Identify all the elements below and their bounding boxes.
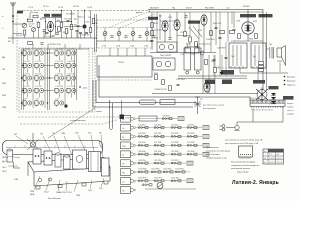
svg-text:Пб: Пб [122,190,124,192]
label box СВ-КВ [52,14,62,17]
svg-text:С33 R37 6,8: С33 R37 6,8 [154,89,167,91]
bottom leaders [8,156,104,192]
svg-text:Выход 1: Выход 1 [287,77,296,79]
pot R15 [195,42,198,47]
svg-text:С2 20: С2 20 [28,7,33,9]
svg-text:колодке: колодке [287,114,294,116]
svg-text:соединительной колодки на: соединительной колодки на [231,164,260,167]
row2 end box [178,117,184,121]
lamp stem [197,97,199,114]
dark comp bank bottom [64,104,67,107]
wire x215b [214,55,216,94]
wafer box Св [121,124,131,131]
svg-text:для ламп освещ. шкалы: для ламп освещ. шкалы [203,105,225,107]
dark box СЕТЬ2 [222,80,232,85]
contact r6.0 [138,153,148,155]
right can [102,158,110,176]
row7 end ticks [188,161,190,165]
svg-text:при напряжении сети 220в пред.: при напряжении сети 220в пред. 0,5А [225,142,259,145]
svg-text:Лп: Лп [264,151,266,153]
dark box ВЫПР [221,70,234,75]
link y35b [177,35,190,37]
psu bus 1 [178,75,247,77]
svg-text:6П14П: 6П14П [243,6,250,8]
contact r6.1 [154,153,164,155]
contact r8.2 [163,171,173,173]
coil cell L2 [22,51,32,57]
wire x216 [215,12,217,45]
switch diag 1 [189,27,199,39]
bank rail L2 [23,49,25,110]
resistor R12 [151,31,154,36]
pulley shaft [32,133,34,142]
svg-text:R1 51к: R1 51к [43,6,49,8]
wafer contact Дв [131,117,134,120]
svg-text:Расположение выводов: Расположение выводов [231,162,256,164]
link y33 [13,33,22,35]
left cyl [7,149,13,162]
choke windings [255,45,259,66]
IF can T5 [153,58,175,70]
tube V4 det [201,15,207,25]
wafer circle УКВ [133,144,135,146]
bank rail M1 [47,49,49,110]
resistor R11 [151,23,154,28]
bank feed drops [33,44,80,49]
svg-text:Звукосн.: Звукосн. [287,85,296,87]
lamp star [194,101,201,107]
V5 electrodes [245,22,252,31]
wire x80 [80,34,82,38]
padder C7 [76,30,79,31]
row5 end box [203,143,209,147]
row2 end ticks [179,117,181,121]
svg-text:перекл.: перекл. [287,103,294,105]
jack inner [158,184,162,187]
svg-text:НЧ 6Н2П: НЧ 6Н2П [205,7,215,9]
contact r2.0 [162,118,172,120]
gang common bar [97,40,152,42]
antenna node dot [12,15,14,17]
svg-text:С91 R51: С91 R51 [154,160,161,162]
coil cell L4 [22,76,32,82]
wire x30 [29,13,31,18]
wire x220m [219,45,221,76]
gnd y52 [150,52,216,54]
resistor R2 [70,25,73,30]
T5 coil b [165,61,171,67]
svg-text:ПЧ2-1: ПЧ2-1 [2,157,9,159]
bundle wire 1 [99,65,250,100]
svg-text:С82 R42: С82 R42 [171,151,178,153]
coil cell L5 [22,88,32,94]
stage rails V2 [159,14,161,40]
wire x222m [221,55,223,72]
row9 line [136,180,186,182]
contact r7.0 [138,162,148,164]
label box выпр [269,86,279,89]
svg-text:С90 R50: С90 R50 [138,160,145,162]
svg-text:монтажной панели: монтажной панели [231,167,251,170]
bias box [185,47,199,53]
svg-text:Латвия-2. Январь: Латвия-2. Январь [232,180,279,186]
wafer box Кв [121,133,131,140]
cap C6 [43,30,46,31]
pulley wheel [30,142,35,147]
row7 end box [187,161,193,165]
svg-text:С73 R33: С73 R33 [187,142,194,144]
contact r9.2 [171,180,181,182]
svg-text:С53 R13: С53 R13 [187,124,194,126]
tr1 bottom hatch [231,66,243,68]
res R44 [205,60,208,65]
stage top link [42,17,62,19]
res R19 [189,37,192,42]
row5 line [136,144,202,146]
row5 end ticks [204,143,206,147]
chassis leader lines [16,135,103,158]
psu bus 2 [178,77,247,79]
coil cell L8 [34,76,44,82]
coil cell L10 [54,51,64,57]
cell link L4 [27,80,29,85]
wire V3 anode [176,12,178,20]
wire x258b [257,68,259,80]
svg-text:L11 С31: L11 С31 [56,61,63,63]
wafer contact Сб [131,180,134,183]
link y21.5 [56,21,72,23]
svg-text:L7 С27: L7 С27 [36,61,42,63]
cap C11 [79,32,82,33]
res R38 [169,86,172,91]
bundle wire 2 [96,80,196,103]
unit dashed bottom [97,79,152,81]
svg-text:С52 R12: С52 R12 [171,124,178,126]
cap C35 [213,59,216,60]
link y30b [152,29,162,31]
res stack R31 [259,62,264,65]
selenium bars [271,96,276,104]
trimmer C3 [32,28,36,32]
wafer circle Пб [133,189,135,191]
svg-text:С5 130: С5 130 [64,19,72,21]
wafer contact Пб [131,189,134,192]
out bus [240,72,288,74]
wire x78b [77,27,79,38]
cell link L3 [27,68,29,73]
svg-text:экран: экран [96,111,103,113]
row2 long rect [139,116,157,121]
wafer contact НЧ [131,171,134,174]
wafer circle Зв [133,153,135,155]
svg-text:С83 R43: С83 R43 [187,151,194,153]
svg-text:L18: L18 [24,99,27,101]
cap C21 [151,40,154,41]
wafer circle Св [133,127,135,129]
wire tap1 [61,10,63,22]
arrow triangle [220,72,224,75]
link y41c [234,40,263,42]
chassis top labels [14,133,103,137]
cap C42 [85,32,88,33]
res R34 [155,75,158,80]
cap C36 [225,57,228,58]
svg-text:L13 С33: L13 С33 [56,86,63,88]
wire x240b [239,68,241,73]
node dot B [12,21,14,23]
svg-text:6Х2П: 6Х2П [186,7,192,9]
wafer circle Дв [133,118,135,120]
res stack R32 [259,65,264,68]
svg-text:конденсаторов в пф: конденсаторов в пф [206,157,227,160]
coil cell L14 [66,51,76,57]
svg-text:В1 анод: В1 анод [30,12,39,14]
svg-text:ВЧБ: ВЧБ [30,194,35,196]
link y21b [160,20,177,22]
svg-text:динам: динам [136,12,143,14]
svg-text:к выпрямителю: к выпрямителю [70,120,86,122]
row6 line [136,153,202,155]
phone jack circle [157,183,163,189]
row4 end box [203,134,209,138]
gang section C12 [145,32,149,36]
cell link L13 [59,93,61,98]
contact r6.2 [171,153,181,155]
coil cell L12 [54,76,64,82]
svg-text:С100 R60: С100 R60 [138,169,147,171]
wire x38.5 [38,28,40,39]
row3 end ticks [204,126,206,130]
contact r5.2 [171,144,181,146]
pot circle [200,51,204,55]
IFT box [157,42,177,52]
left bracket [14,162,21,168]
coil cell L13 [54,88,64,94]
strip mid [250,102,285,104]
res R17 [220,31,225,34]
svg-text:6,3 0,3: 6,3 0,3 [269,158,275,160]
svg-text:cd: cd [264,162,266,164]
wire tap4 [90,10,92,27]
bank row links [44,53,53,91]
coil cell L15 [66,63,76,69]
contact r8.0 [138,171,148,173]
wafer contact Зв [131,153,134,156]
coil cell L16 [66,76,76,82]
svg-text:(вид снизу): (вид снизу) [237,171,249,173]
dial tick marks [15,146,85,148]
svg-text:сети на: сети на [287,110,294,112]
svg-text:Л2-1: Л2-1 [2,167,7,169]
K2 dots [46,157,51,159]
bank rail L1 [21,49,23,110]
table header fill [268,149,284,152]
contact r8.1 [151,171,161,173]
cell link L15 [71,68,73,73]
svg-text:R16 470: R16 470 [213,23,222,25]
can C31 [184,48,191,70]
rail dots [21,52,50,103]
svg-text:напряж.: напряж. [287,107,294,109]
gang diagonal 1 [108,11,150,28]
tube V6 [204,82,210,92]
cap C28 [219,37,222,38]
wire x66 [66,34,68,39]
wire x234 [233,12,235,28]
gang lead C11 [132,28,134,32]
label box ДВ [44,14,50,17]
svg-text:С103 R63: С103 R63 [175,169,184,171]
wire x203 [202,55,204,94]
trimmer C13 [111,36,114,37]
wire up from P [121,100,123,115]
cap C22 [169,38,172,39]
table frame [263,149,284,164]
row6 end ticks [204,152,206,156]
strip pins [252,107,283,109]
gang drops [110,48,145,56]
svg-text:АПЧ: АПЧ [40,18,45,21]
label box ПЧ [148,17,158,20]
wafer contact Кв [131,135,134,138]
AF bus [152,93,258,95]
trimmer C16 [153,36,156,37]
res R14 [184,32,187,37]
tr2 bottom hatch [253,66,261,68]
coil cell L17 [66,88,76,94]
tube cyl T1 [55,153,61,167]
res R36 [214,68,217,73]
bank dashed pair a [88,48,90,112]
wafer circle Кв [133,136,135,138]
wire x78t [77,10,79,24]
bus lower [148,11,263,13]
svg-text:1 2 3 4 5 6 7 8 9 10 12 14: 1 2 3 4 5 6 7 8 9 10 12 14 [251,110,273,112]
tap 30v [79,86,81,88]
svg-text:Л6-2: Л6-2 [2,171,7,173]
svg-text:С72 R32: С72 R32 [171,142,178,144]
svg-text:С2 3,9: С2 3,9 [28,24,35,26]
svg-text:Выход 2: Выход 2 [287,81,296,83]
svg-text:L8 С28: L8 С28 [36,74,42,76]
input coil L1 [23,30,26,35]
leader to chassis [48,108,95,138]
underline bar [145,188,196,190]
bundle wire 3 [93,80,193,107]
cell link L16 [71,80,73,85]
gang dashed mid [97,27,152,29]
wire strip right down [282,107,284,123]
IFT coil b [168,44,173,49]
res R18 [230,31,235,34]
svg-text:С81 R41: С81 R41 [154,151,161,153]
can tops [187,44,198,48]
cell link L10 [59,55,61,60]
wafer box Сб [121,178,131,185]
wire x232 [231,12,233,24]
cross dot [261,94,263,96]
coil cell L9 [34,88,44,94]
wire x226m [225,42,227,76]
svg-text:ПЧ-2 6И1П: ПЧ-2 6И1П [160,55,172,57]
IFT coil a [159,44,164,49]
bank rail M2 [49,49,51,110]
contact r8.3 [175,171,185,173]
trimmer C15 [139,36,142,37]
tap 1 [284,76,286,78]
res R9 [65,29,68,34]
cell link L9 [39,93,41,98]
wafer contact ТВ [131,162,134,165]
wafer box НЧ [121,169,131,176]
svg-text:СВ: СВ [2,69,6,71]
wire V5 cath [247,34,249,41]
svg-text:L20: L20 [56,99,59,101]
strip hatch [251,100,284,103]
cap C24b [185,16,188,17]
mains tr windings [233,45,241,66]
rear panel box [239,146,253,157]
contact r4.1 [154,135,164,137]
left labels [2,157,9,169]
tube cyl T2 [63,155,70,169]
cap C34 [177,84,180,85]
svg-text:Фиг. Монтаж: Фиг. Монтаж [48,197,61,200]
gang diagonal 2 [120,14,155,28]
svg-text:6,3 0,7: 6,3 0,7 [277,158,283,160]
contact r5.1 [154,144,164,146]
svg-text:С40 R00: С40 R00 [162,115,169,117]
strip outline [250,100,285,107]
chassis front [34,167,110,186]
wafer circle Сб [133,180,135,182]
svg-text:С112 R72: С112 R72 [171,178,179,180]
mains wire2 [226,127,235,129]
tap 3 [284,84,286,86]
svg-text:R3 2,2: R3 2,2 [78,17,85,19]
coil cell L18 [22,101,32,107]
svg-text:С50 R10: С50 R10 [138,124,145,126]
label box ЭКРАН [283,96,294,100]
wire x199 [198,23,200,52]
svg-text:L12 С32: L12 С32 [56,74,63,76]
wire x228 [227,12,229,42]
dial glass [3,141,103,155]
wire R14 [184,12,186,32]
svg-text:L16 С36: L16 С36 [68,74,75,76]
lamp bar [195,96,200,98]
stage rail right [55,18,57,36]
contact r9.1 [154,180,164,182]
wire x209 [208,55,210,94]
svg-text:С60 R20: С60 R20 [138,133,145,135]
eye circle [257,90,267,100]
wire V4 down [203,25,205,52]
gang left rail [94,14,96,52]
wire V1 down [50,32,52,38]
rear panel dots [240,154,251,155]
table text [264,151,282,164]
cell link L5 [27,93,29,98]
dashed chassis bus [23,9,150,11]
svg-text:С5 30: С5 30 [58,7,63,9]
svg-text:С101 R61: С101 R61 [151,169,160,171]
svg-text:Л4АБ Л3-2 Л2-1: Л4АБ Л3-2 Л2-1 [56,191,73,194]
cell link L2 [27,55,29,60]
contact r5.0 [138,144,148,146]
can C32 [195,48,202,70]
cell link L12 [59,80,61,85]
